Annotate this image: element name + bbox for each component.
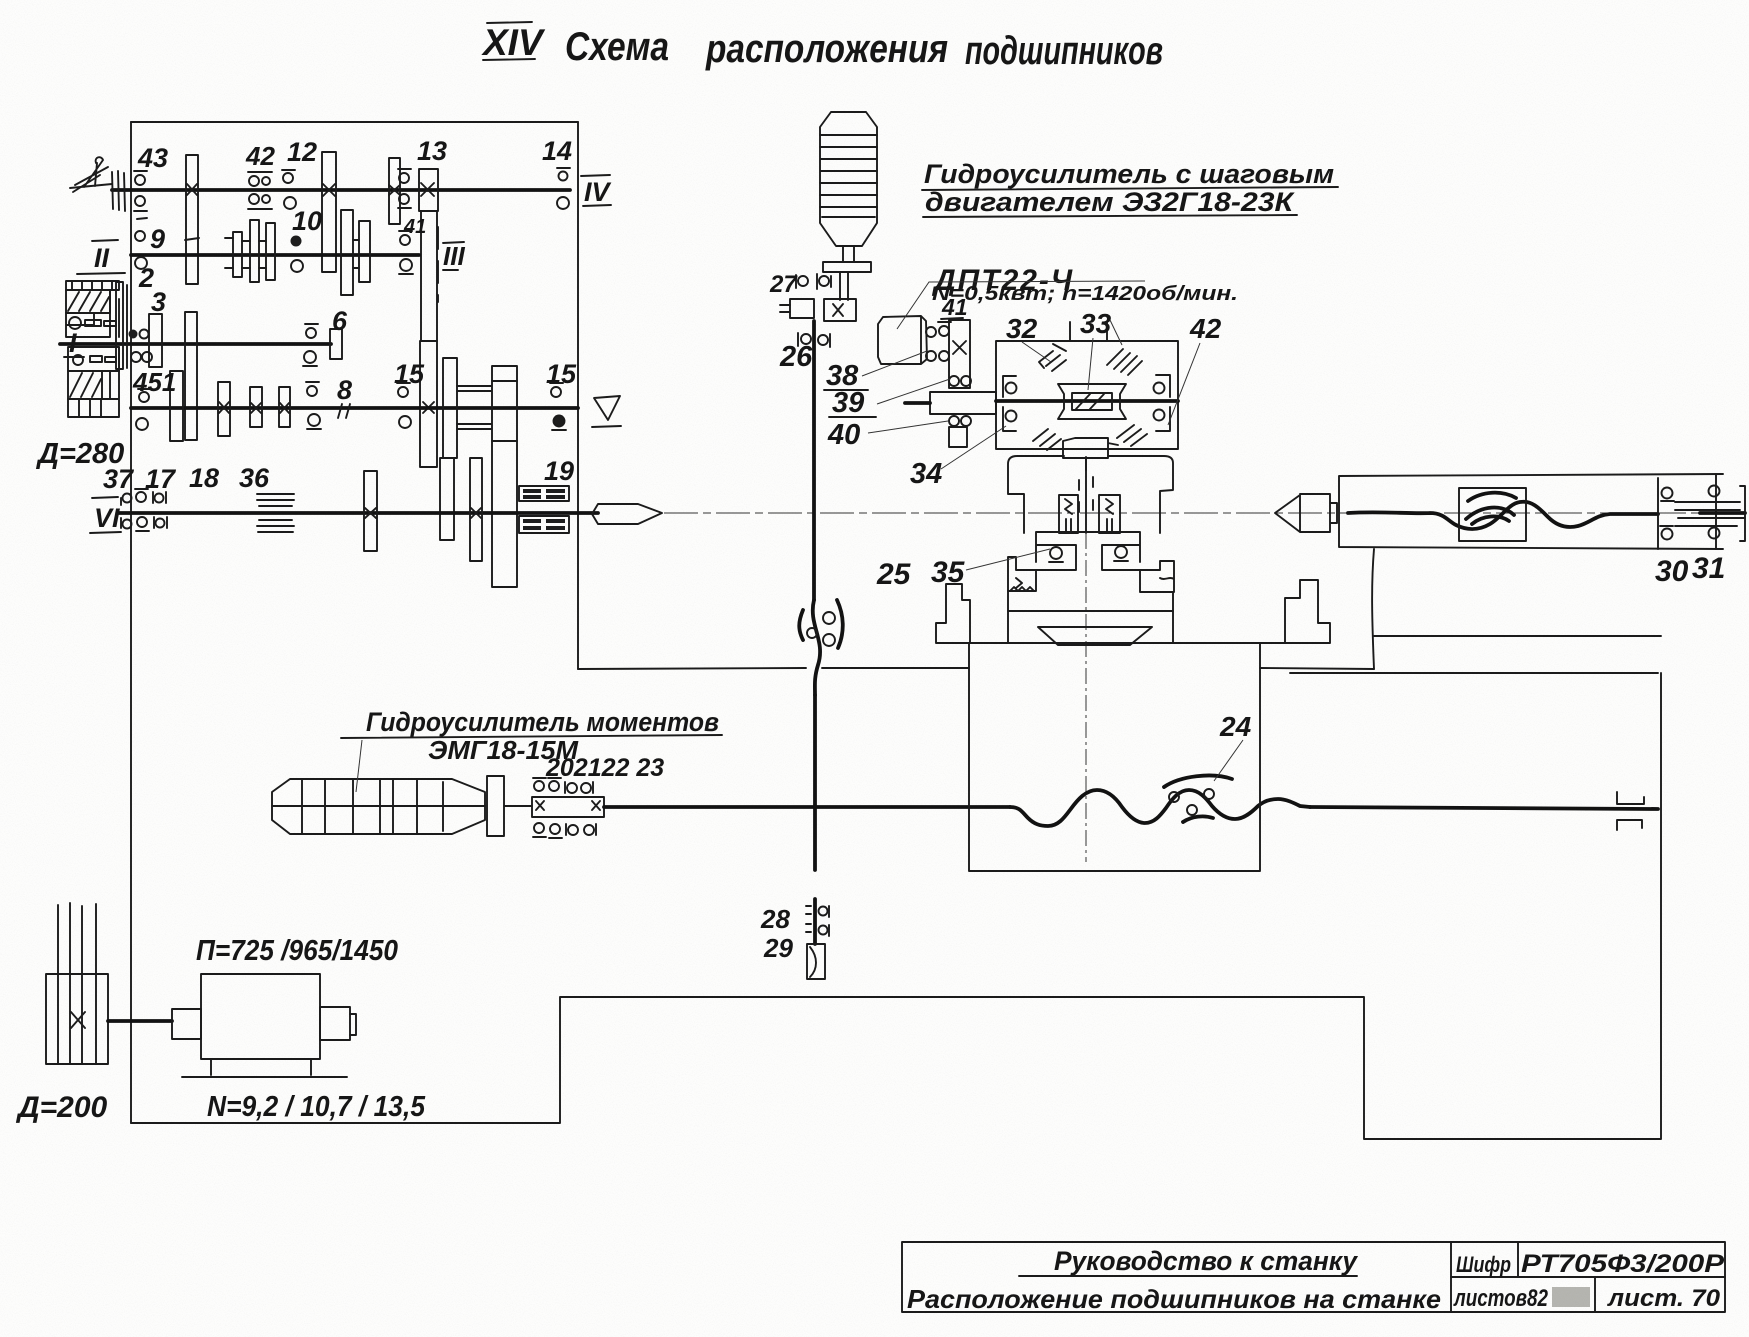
pulley D280 upper xyxy=(66,281,119,337)
leadscrew main line xyxy=(604,805,1010,809)
gear cluster shaft II mid xyxy=(341,210,370,295)
gear shaft VI b xyxy=(470,458,482,561)
bearing 42 circles xyxy=(248,172,272,209)
gear shaft V b xyxy=(218,382,230,436)
titleblock code xyxy=(1521,1250,1724,1278)
bearing 39 circles xyxy=(949,376,971,386)
coupling 19 lower xyxy=(519,516,569,533)
label 19 xyxy=(544,456,574,486)
labels 37 17 18 36 xyxy=(103,463,270,494)
spindle nose arrow xyxy=(592,504,662,524)
labels 30 31 xyxy=(1655,552,1725,588)
pump box 27 xyxy=(780,299,856,321)
label D200 xyxy=(15,1091,108,1124)
note EMG line1 xyxy=(341,707,722,792)
bearing 8 xyxy=(306,382,321,429)
gear 3 xyxy=(149,314,162,367)
saddle right wing xyxy=(1173,580,1330,643)
leadscrew right end bearing 30 31 brackets xyxy=(1617,792,1644,830)
note hydro stepper line2 xyxy=(923,187,1297,217)
apron box xyxy=(969,643,1260,871)
title block frame xyxy=(902,1242,1725,1312)
bearing 38 circles xyxy=(926,322,951,361)
gear shaft V d xyxy=(279,387,290,427)
labels 15 xyxy=(394,359,577,389)
gear 12 xyxy=(322,152,336,272)
saddle left wing xyxy=(936,584,1008,643)
tailstock base left edge xyxy=(1372,549,1374,669)
titleblock row2 xyxy=(907,1284,1441,1314)
main motor body xyxy=(172,974,356,1059)
bearing 26 circles xyxy=(798,333,830,347)
big gear right xyxy=(492,366,517,587)
titleblock shifr xyxy=(1456,1252,1511,1277)
motor pulley D200 xyxy=(46,974,108,1064)
right lower block xyxy=(1140,561,1174,592)
gearbox housing top wall xyxy=(131,121,578,123)
shaft I label xyxy=(64,328,84,358)
label 40 xyxy=(827,419,948,451)
bearing 37 17 18 xyxy=(121,489,167,531)
sheet title XIV xyxy=(481,22,546,63)
leadscrew bearing box 20-23 xyxy=(532,797,604,817)
label 27 xyxy=(769,271,798,298)
tank stem xyxy=(823,246,871,300)
label 6 xyxy=(332,306,348,336)
label 33 xyxy=(1080,308,1122,390)
dead center xyxy=(1275,494,1337,532)
gear below shaft VI link xyxy=(440,458,454,540)
feed shaft vertical upper xyxy=(812,321,816,600)
oil tank xyxy=(820,112,877,246)
belt lines xyxy=(58,903,96,974)
bracket TR xyxy=(1154,375,1171,397)
shaft II label xyxy=(77,240,125,274)
plunger right xyxy=(1099,495,1120,533)
input sketch arrow xyxy=(70,157,125,211)
shaft II xyxy=(131,253,419,257)
shaft VI label xyxy=(90,497,121,533)
label 9 xyxy=(150,224,165,254)
labels 28 29 xyxy=(760,904,793,963)
bed top line apron to tailstock xyxy=(822,668,1374,669)
valve hatch TR xyxy=(1107,349,1142,375)
label 24 leader xyxy=(1214,740,1243,781)
motor power note xyxy=(207,1091,426,1123)
valve hatch TL xyxy=(1039,344,1066,371)
gear 13 clutch column xyxy=(419,169,438,467)
titleblock row1 xyxy=(1054,1246,1359,1276)
tailstock barrel housing xyxy=(1339,474,1723,549)
shaft III label xyxy=(443,241,465,271)
leadscrew wave through apron xyxy=(1010,790,1310,826)
left lower block xyxy=(1008,557,1036,591)
label 10 xyxy=(292,206,322,236)
shaft IV xyxy=(112,188,570,192)
note EMG line2 xyxy=(428,735,579,765)
gear shaft V a xyxy=(170,371,183,441)
gear cluster shaft II left xyxy=(225,220,275,282)
shaft flange into box xyxy=(905,392,996,414)
belt rect shaft I xyxy=(116,282,127,369)
scan noise xyxy=(0,0,1,1)
gear shaft V c xyxy=(250,387,262,427)
motor speed note xyxy=(196,935,398,967)
labels 20 21 22 23 xyxy=(545,754,664,782)
note DPT22 xyxy=(897,264,1145,329)
label 42 right xyxy=(1168,313,1222,425)
shaft V label xyxy=(592,396,621,427)
amplifier box xyxy=(996,322,1178,449)
titleblock list70 xyxy=(1607,1285,1721,1312)
shaft III dashed line xyxy=(437,227,439,302)
slide center line xyxy=(1079,457,1093,862)
gear shaft IV second xyxy=(389,158,400,224)
label 24 xyxy=(1219,711,1252,742)
note DPT22 data xyxy=(932,283,1238,305)
amplifier shaft xyxy=(996,399,1178,403)
bearing 12 circles xyxy=(282,170,296,209)
spline lines shaft V right xyxy=(457,386,491,429)
gear 15 mid xyxy=(443,358,457,458)
label 32 xyxy=(1006,313,1051,362)
bracket TL xyxy=(1003,376,1017,397)
bearing 1 shaft I left xyxy=(129,330,153,363)
label D280 xyxy=(35,438,124,470)
bearing 40 circles xyxy=(949,416,971,447)
feed shaft wave break xyxy=(799,600,843,695)
valve hatch BL xyxy=(1033,429,1061,450)
labels 2 3 xyxy=(138,263,166,317)
bearing 14 xyxy=(557,168,570,209)
bearing 6 xyxy=(303,324,318,366)
bearing 451 xyxy=(136,389,151,430)
bed line under tailstock upper xyxy=(1374,635,1661,637)
shaft IV label xyxy=(581,175,612,207)
valve hatch BR xyxy=(1117,425,1147,446)
label 34 xyxy=(910,426,1006,490)
labels 25 35 xyxy=(876,549,1050,591)
note hydro stepper line1 xyxy=(922,159,1338,190)
spool center xyxy=(1058,384,1126,419)
bearing 15 left xyxy=(397,383,411,428)
bearing 9 xyxy=(135,231,147,269)
pulley D280 lower xyxy=(68,347,119,417)
EMG end plate xyxy=(487,776,504,836)
bearing 27 symbol xyxy=(796,274,831,289)
bearing 41 shaft II right xyxy=(399,231,413,274)
stepper motor body xyxy=(878,316,927,364)
tailstock right bearing block 30 31 xyxy=(1658,474,1745,549)
bed surface under tailstock xyxy=(1290,672,1658,674)
label 41 small xyxy=(403,216,426,238)
nut block 25 35 xyxy=(1036,532,1140,570)
machine base bottom left xyxy=(131,673,1661,1139)
gearbox housing left wall xyxy=(130,122,132,1123)
gear 6 xyxy=(330,329,342,359)
coupling 19 upper xyxy=(519,486,569,501)
feed shaft vertical lower xyxy=(813,695,817,944)
bearing 15 right xyxy=(550,383,566,430)
bearings 22 23 circles bottom xyxy=(533,823,596,838)
shaft V xyxy=(131,406,578,410)
saddle lower xyxy=(1008,591,1173,645)
shaft VI xyxy=(119,511,598,515)
servo tab below box xyxy=(1063,438,1118,470)
tailstock screw wavy xyxy=(1348,502,1658,529)
label 8 xyxy=(337,375,352,418)
motor feet xyxy=(182,1059,347,1077)
slide yoke band xyxy=(1008,456,1173,533)
leadscrew stub xyxy=(504,805,532,807)
bracket BL xyxy=(1003,407,1017,431)
gearbox housing right wall xyxy=(577,122,579,669)
plunger left xyxy=(1059,495,1078,533)
label 26 xyxy=(779,341,813,373)
bearing 43 xyxy=(134,171,147,219)
spline 36 xyxy=(257,494,294,532)
coupling 41 xyxy=(949,320,970,388)
titleblock listov xyxy=(1453,1285,1590,1312)
bearing 13 circles xyxy=(398,169,411,208)
bearings 20 21 circles top xyxy=(533,778,593,793)
label 38 xyxy=(824,351,927,392)
motor shaft xyxy=(108,1019,172,1023)
bracket BR xyxy=(1154,407,1171,431)
gear block shaft IV-III long xyxy=(185,155,199,284)
bearing 28 29 xyxy=(806,906,829,979)
label 39 xyxy=(829,379,950,419)
spindle centerline xyxy=(664,512,1711,514)
sheet title text xyxy=(565,25,1163,73)
bed top line left of apron xyxy=(578,668,806,669)
gear shaft VI a xyxy=(364,471,377,551)
handwheel box 24 xyxy=(1459,488,1526,541)
bearing 10 dot xyxy=(291,236,304,273)
label 451 xyxy=(132,367,176,397)
EMG hydraulic torque amplifier body xyxy=(272,779,485,834)
leadscrew right section xyxy=(1310,807,1658,809)
shaft I xyxy=(60,342,331,346)
long gear shaft I-V xyxy=(185,312,197,440)
gearbox labels top row xyxy=(137,143,168,173)
label 41 xyxy=(941,294,968,320)
halfnut arc 24 xyxy=(1164,776,1232,822)
